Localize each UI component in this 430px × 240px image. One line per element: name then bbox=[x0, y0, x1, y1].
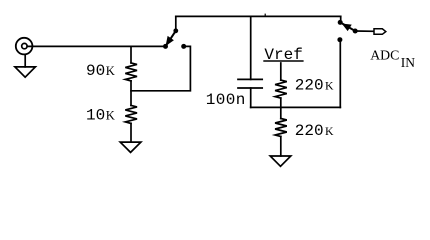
ground G3 bbox=[270, 156, 291, 166]
junction tick on rail bbox=[264, 14, 266, 16]
switch S2 arm bbox=[340, 22, 355, 31]
capacitor C1 top plate bbox=[238, 78, 262, 80]
switch S2 bottom contact dot bbox=[337, 37, 342, 42]
wire between R1 and R2 bbox=[130, 81, 132, 106]
wire top rail bbox=[176, 15, 341, 17]
resistor R1 90K zigzag bbox=[125, 63, 137, 81]
wire input horizontal bbox=[27, 45, 165, 47]
wire switch S2 top contact stub bbox=[340, 16, 342, 22]
ground G1 bbox=[15, 67, 36, 77]
wire divider tap to switch right contact bbox=[131, 46, 190, 90]
resistor R4 220K zigzag bbox=[275, 119, 287, 137]
ground G2 bbox=[120, 142, 141, 152]
wire switch S1 pole vertical bbox=[175, 16, 177, 30]
port ADC_IN symbol bbox=[374, 29, 386, 35]
connector J1 inner circle bbox=[22, 43, 27, 48]
wire right vertical to divider mid bbox=[339, 40, 341, 108]
svg-text:ADC: ADC bbox=[370, 47, 399, 62]
switch S1 arm bbox=[166, 31, 176, 47]
underline for Vref bbox=[264, 60, 303, 62]
switch S1 pole dot bbox=[173, 28, 178, 33]
switch S1 left contact dot bbox=[163, 44, 168, 49]
svg-text:100n: 100n bbox=[206, 91, 246, 109]
wire capacitor branch top bbox=[250, 16, 252, 79]
wire divider vertical top bbox=[130, 46, 132, 63]
wire connector to ground bbox=[24, 55, 26, 67]
svg-text:220K: 220K bbox=[295, 122, 334, 140]
resistor R2 10K zigzag bbox=[125, 105, 137, 123]
svg-text:90K: 90K bbox=[86, 62, 115, 80]
svg-text:220K: 220K bbox=[295, 76, 334, 94]
resistor R3 220K zigzag bbox=[275, 80, 287, 98]
wire R2 to ground bbox=[130, 123, 132, 142]
label R1 value 90K bbox=[86, 46, 334, 140]
switch S1 right contact dot bbox=[181, 44, 186, 49]
capacitor C1 bottom plate bbox=[238, 87, 262, 89]
switch S2 common dot bbox=[353, 29, 358, 34]
svg-text:10K: 10K bbox=[86, 106, 115, 124]
wire Vref stem bbox=[280, 63, 282, 80]
label net ADC_IN bbox=[370, 47, 415, 70]
svg-text:IN: IN bbox=[401, 55, 415, 70]
connector J1 outer circle bbox=[16, 38, 33, 55]
wire bottom middle horizontal bbox=[251, 106, 341, 108]
switch S1 arrowhead bbox=[167, 37, 173, 44]
wire R4 to ground bbox=[280, 137, 282, 157]
wire R3 bottom bbox=[280, 98, 282, 107]
wire R4 top bbox=[280, 107, 282, 118]
switch S2 arrowhead bbox=[344, 25, 351, 30]
switch S2 top contact dot bbox=[338, 20, 343, 25]
wire to ADC port bbox=[355, 30, 374, 32]
wire capacitor branch bottom bbox=[250, 88, 252, 107]
